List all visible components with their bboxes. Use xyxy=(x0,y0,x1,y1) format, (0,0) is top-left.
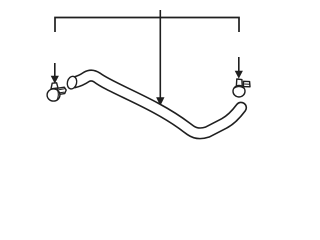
left clamp screw head xyxy=(58,87,66,94)
left clamp screw housing xyxy=(51,83,58,89)
left clamp band edge line xyxy=(57,90,58,101)
right clamp screw head slot line xyxy=(244,83,249,85)
right clamp xyxy=(233,79,250,97)
right clamp ring xyxy=(233,85,245,97)
right clamp band inner line xyxy=(234,87,244,89)
hose body (white interior) xyxy=(75,76,242,134)
hose body (outline) xyxy=(75,76,242,134)
dimension bracket xyxy=(55,18,239,33)
left clamp xyxy=(47,83,66,101)
hose opening (left end ellipse) xyxy=(66,75,78,90)
callout arrow (middle) xyxy=(157,10,164,105)
left clamp arrow xyxy=(51,63,58,83)
left clamp screw head slot lines xyxy=(59,89,65,93)
right clamp screw housing xyxy=(236,79,242,87)
right clamp arrow xyxy=(235,57,242,78)
left clamp ring xyxy=(47,89,60,101)
right clamp screw head xyxy=(244,81,251,87)
